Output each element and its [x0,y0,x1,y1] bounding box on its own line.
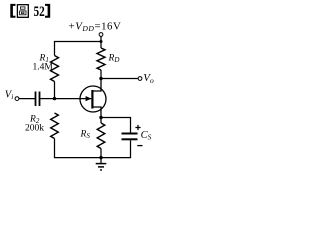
svg-text:CS: CS [141,130,152,142]
wire VDD down to RD [100,36,102,48]
svg-text:RS: RS [80,130,91,141]
wire source node to CS [101,118,131,133]
svg-text:Vi: Vi [5,90,14,102]
node drain/Vo [99,77,102,80]
resistor R2 [51,113,59,139]
node source [99,116,102,119]
wire RS bottom to ground node [100,149,102,158]
svg-text:1.4M: 1.4M [33,63,54,73]
svg-text:200k: 200k [25,124,44,134]
wire branch to R1 [55,42,102,56]
node junction at VDD branch [100,40,103,43]
wire capacitor to gate node [40,98,55,100]
coupling capacitor [35,92,37,107]
wire to Vo [101,78,138,80]
ground [96,158,107,170]
figure title 【圖 52】 [10,4,15,18]
JFET Q1 [80,80,106,118]
wire RD to drain node [100,70,102,79]
resistor RD [97,48,105,70]
Vo terminal [138,77,142,81]
node ground rail [99,156,102,159]
node gate [53,97,56,100]
VDD terminal [99,33,103,37]
wire CS bottom to rail [101,140,131,157]
svg-text:52: 52 [34,3,46,20]
wire Vi to capacitor [19,98,35,100]
capacitor CS [122,133,138,135]
wire R2 bottom to rail [55,139,102,158]
resistor R1 [51,56,59,82]
resistor RS [100,118,102,124]
svg-text:+VDD=16V: +VDD=16V [69,21,122,33]
wire gate node to JFET gate [55,98,92,100]
Vi terminal [15,97,19,101]
svg-text:RD: RD [108,54,120,65]
wire R1 to gate node [54,82,56,99]
